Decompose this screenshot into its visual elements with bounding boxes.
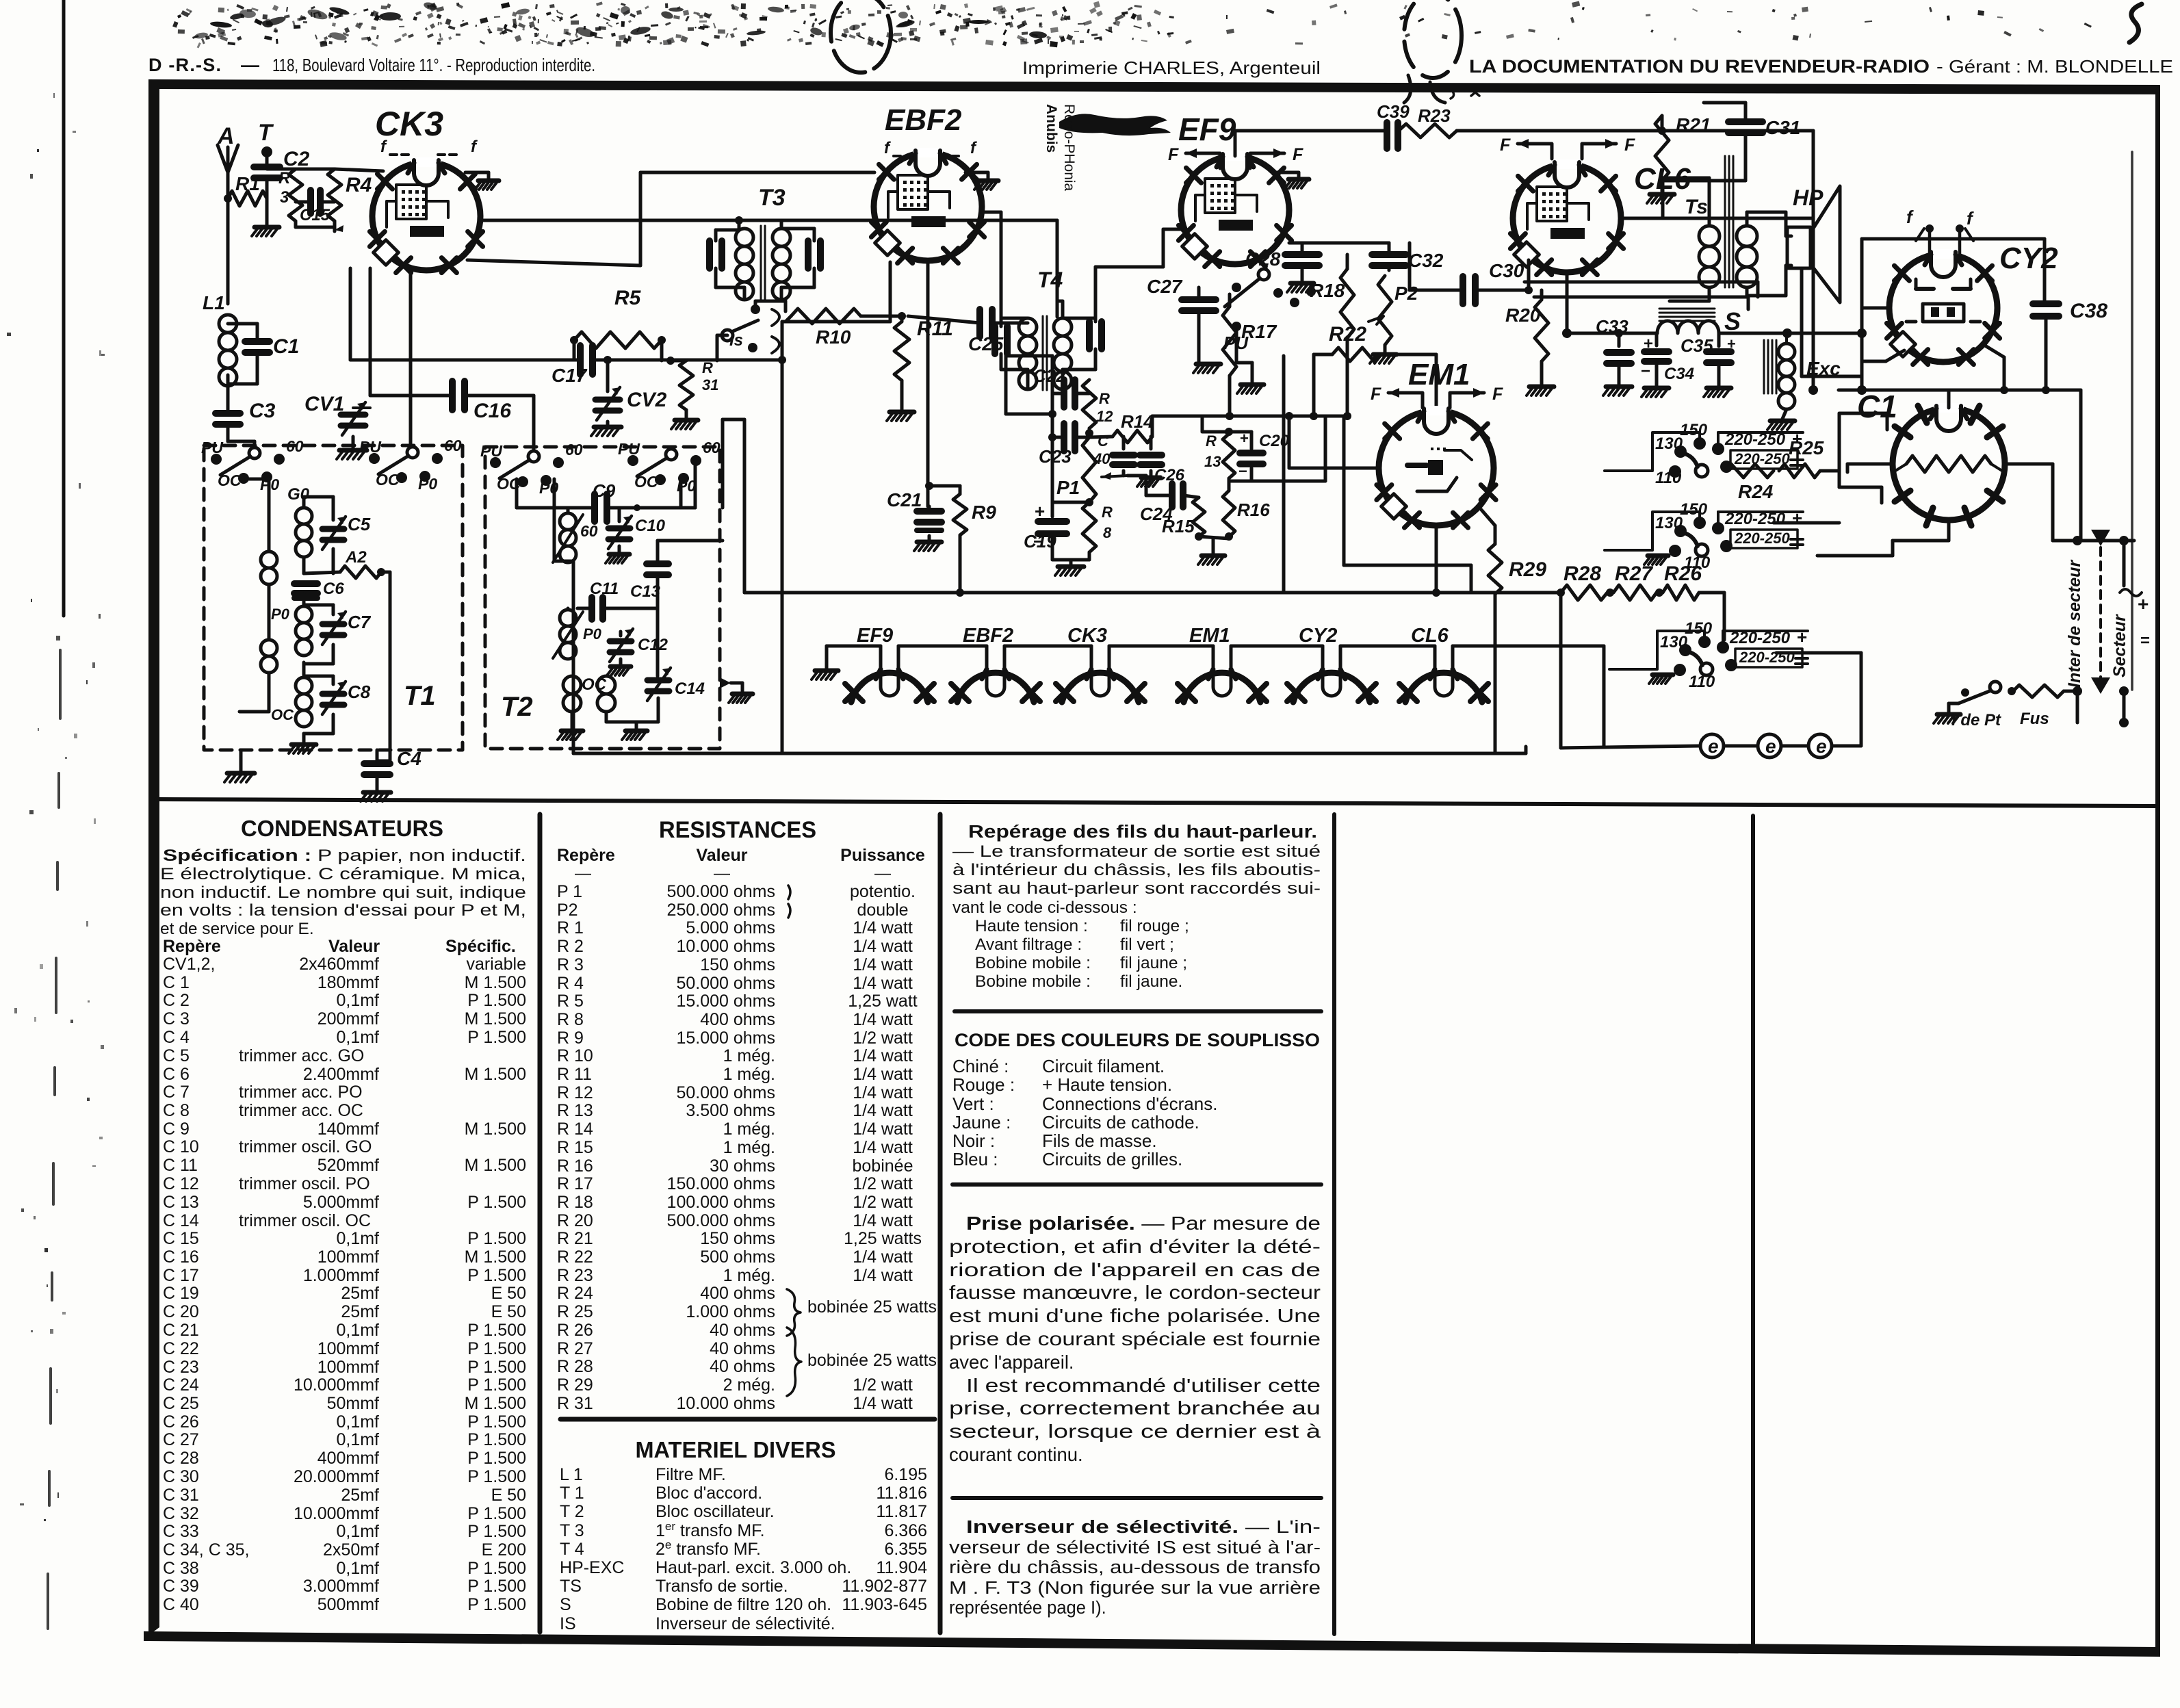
- svg-text:R17: R17: [1241, 321, 1277, 342]
- potentiometer P2: [1378, 276, 1392, 345]
- capacitor C21: [917, 511, 942, 522]
- svg-text:HP: HP: [1793, 185, 1824, 210]
- svg-text:non inductif. Le nombre qu: non inductif. Le nombre qui suit, indiqu…: [160, 883, 526, 902]
- svg-text:400mmf: 400mmf: [317, 1449, 379, 1468]
- svg-text:avec l'appareil.: avec l'appareil.: [949, 1351, 1074, 1373]
- svg-text:100mmf: 100mmf: [317, 1247, 379, 1267]
- svg-text:C1: C1: [273, 335, 299, 358]
- bus y=866: [744, 591, 1561, 595]
- svg-text:potentio.: potentio.: [850, 882, 916, 901]
- svg-text:prise de courant spéciale: prise de courant spéciale est fournie: [949, 1328, 1321, 1349]
- svg-text:150: 150: [1685, 619, 1713, 638]
- svg-text:C 26: C 26: [163, 1412, 199, 1432]
- svg-text:1/4 watt: 1/4 watt: [853, 1211, 913, 1230]
- svg-text:R 11: R 11: [557, 1065, 592, 1084]
- svg-text:C21: C21: [887, 489, 922, 510]
- svg-text:11.904: 11.904: [876, 1558, 927, 1577]
- variable capacitor CV1: [341, 415, 365, 426]
- EBF2 bottom to C21: [926, 262, 930, 506]
- svg-text:500.000 ohms: 500.000 ohms: [667, 1211, 775, 1230]
- svg-text:P 1.500: P 1.500: [467, 1449, 526, 1468]
- svg-text:R 28: R 28: [557, 1357, 593, 1376]
- svg-text:C 5: C 5: [163, 1046, 190, 1065]
- svg-text:fil rouge ;: fil rouge ;: [1120, 917, 1189, 935]
- svg-text:1/4 watt: 1/4 watt: [853, 974, 913, 993]
- svg-text:C 13: C 13: [163, 1193, 199, 1212]
- svg-text:M 1.500: M 1.500: [465, 1009, 526, 1028]
- svg-text:vant le code ci-dessous :: vant le code ci-dessous :: [952, 898, 1137, 917]
- svg-text:I de Pt: I de Pt: [1951, 711, 2001, 729]
- resistor A2 (R2): [340, 566, 381, 578]
- svg-text:P 1.500: P 1.500: [467, 1504, 526, 1523]
- capacitor C23: [1064, 424, 1075, 451]
- capacitor C31: [1728, 122, 1763, 133]
- svg-text:R20: R20: [1505, 305, 1541, 326]
- svg-text:Secteur: Secteur: [2110, 614, 2129, 677]
- svg-text:250.000 ohms: 250.000 ohms: [667, 901, 775, 920]
- svg-text:60: 60: [444, 437, 462, 454]
- coil PO + trimmer C7: [296, 606, 312, 623]
- svg-text:1 még.: 1 még.: [723, 1266, 775, 1285]
- svg-text:1/4 watt: 1/4 watt: [853, 1138, 913, 1157]
- svg-text:M 1.500: M 1.500: [465, 1065, 526, 1084]
- svg-text:+: +: [1727, 335, 1736, 352]
- tube EM1 magic eye: [1379, 411, 1494, 526]
- svg-text:C 33: C 33: [163, 1522, 199, 1541]
- svg-text:20.000mmf: 20.000mmf: [294, 1467, 379, 1486]
- svg-text:220-250: 220-250: [1734, 530, 1791, 547]
- svg-text:Avant filtrage :: Avant filtrage :: [975, 935, 1082, 954]
- switch I de Pt and fuse Fus: [1990, 682, 2001, 693]
- svg-text:Filtre MF.: Filtre MF.: [656, 1465, 726, 1484]
- capacitor C6: [294, 584, 317, 593]
- svg-text:trimmer oscil. OC: trimmer oscil. OC: [239, 1211, 371, 1230]
- svg-text:40: 40: [1093, 450, 1111, 467]
- svg-text:C 10: C 10: [163, 1137, 199, 1156]
- svg-text:TS: TS: [560, 1577, 582, 1596]
- svg-text:OC: OC: [376, 471, 400, 489]
- svg-text:3.500 ohms: 3.500 ohms: [686, 1101, 775, 1120]
- svg-text:−: −: [1238, 463, 1247, 480]
- svg-text:10.000mmf: 10.000mmf: [294, 1375, 379, 1395]
- svg-text:R22: R22: [1329, 323, 1366, 346]
- svg-text:Inverseur de sélectivité.: Inverseur de sélectivité.: [656, 1614, 835, 1633]
- svg-text:R15: R15: [1162, 516, 1195, 536]
- svg-text:60: 60: [580, 522, 598, 540]
- A2 long wire to right: [381, 571, 390, 574]
- wire to CK3 grid: [335, 169, 383, 171]
- C1 area wires to selectors: [1947, 520, 1951, 541]
- svg-text:fausse manœuvre, le cordon-: fausse manœuvre, le cordon-secteur: [949, 1282, 1321, 1303]
- svg-text:Circuits de grilles.: Circuits de grilles.: [1042, 1149, 1182, 1169]
- svg-text:P 1.500: P 1.500: [467, 1358, 526, 1377]
- svg-text:25mf: 25mf: [341, 1284, 379, 1303]
- svg-text:2.400mmf: 2.400mmf: [303, 1065, 379, 1084]
- svg-text:CL6: CL6: [1411, 625, 1449, 647]
- svg-text:S: S: [1724, 307, 1741, 335]
- svg-text:Imprimerie CHARLES, Argenteuil: Imprimerie CHARLES, Argenteuil: [1022, 57, 1321, 78]
- capacitor C27: [1182, 300, 1216, 311]
- svg-text:1/2 watt: 1/2 watt: [853, 1174, 913, 1193]
- svg-text:L1: L1: [203, 292, 225, 313]
- svg-text:e: e: [1708, 736, 1719, 757]
- resistor R13: [1223, 434, 1235, 478]
- svg-text:Bloc oscillateur.: Bloc oscillateur.: [656, 1502, 775, 1521]
- svg-text:1 még.: 1 még.: [723, 1065, 775, 1084]
- svg-text:1/4 watt: 1/4 watt: [853, 1247, 913, 1267]
- trimmer capacitor C10: [608, 528, 630, 539]
- svg-text:P0: P0: [418, 475, 437, 493]
- svg-text:T 2: T 2: [560, 1502, 584, 1521]
- svg-text:R 14: R 14: [557, 1120, 593, 1139]
- svg-text:C 21: C 21: [163, 1321, 199, 1340]
- svg-text:400 ohms: 400 ohms: [700, 1010, 775, 1029]
- svg-text:Ts: Ts: [1685, 196, 1708, 218]
- svg-text:=: =: [2140, 632, 2150, 650]
- svg-text:Inverseur de sélectivité. —: Inverseur de sélectivité. — L'in-: [966, 1518, 1321, 1537]
- svg-text:Fus: Fus: [2020, 710, 2049, 728]
- svg-text:150: 150: [1680, 500, 1708, 519]
- svg-text:1/2 watt: 1/2 watt: [853, 1375, 913, 1395]
- ground at CK3 top right: [465, 171, 489, 174]
- paper crease line: [2131, 152, 2133, 690]
- svg-text:1,25 watts: 1,25 watts: [844, 1229, 922, 1248]
- svg-text:Rouge :: Rouge :: [952, 1074, 1015, 1095]
- svg-text:e: e: [1816, 736, 1827, 757]
- svg-text:Bobine mobile :: Bobine mobile :: [975, 972, 1091, 991]
- svg-text:CV1,2,: CV1,2,: [163, 955, 215, 974]
- svg-text:bobinée: bobinée: [853, 1156, 913, 1176]
- svg-text:40 ohms: 40 ohms: [710, 1321, 775, 1340]
- top feedback line: [1234, 131, 1237, 156]
- svg-text:Circuit filament.: Circuit filament.: [1042, 1056, 1165, 1076]
- svg-text:C 30: C 30: [163, 1467, 199, 1486]
- svg-text:12: 12: [1096, 408, 1113, 425]
- svg-text:2x460mmf: 2x460mmf: [299, 955, 379, 974]
- svg-text:R 15: R 15: [557, 1138, 593, 1157]
- svg-text:R: R: [1099, 390, 1110, 407]
- svg-text:fil jaune.: fil jaune.: [1120, 972, 1182, 991]
- capacitor C1: [228, 322, 257, 326]
- svg-text:Bloc d'accord.: Bloc d'accord.: [656, 1484, 762, 1503]
- svg-text:Transfo de sortie.: Transfo de sortie.: [656, 1577, 788, 1596]
- coil GO oscillator: [560, 513, 576, 530]
- svg-text:G0: G0: [287, 485, 310, 504]
- svg-text:EF9: EF9: [857, 625, 893, 647]
- svg-text:110: 110: [1655, 469, 1682, 487]
- svg-text:Repérage des fils du haut-: Repérage des fils du haut-parleur.: [968, 823, 1317, 842]
- resistor R11: [894, 322, 909, 380]
- svg-text:C6: C6: [323, 580, 344, 598]
- bus y=613 corner into T2: [723, 418, 744, 422]
- svg-text:R 4: R 4: [557, 974, 584, 993]
- svg-text:MATERIEL DIVERS: MATERIEL DIVERS: [636, 1437, 836, 1462]
- svg-text:R 31: R 31: [557, 1394, 593, 1413]
- svg-text:E 50: E 50: [491, 1302, 526, 1321]
- svg-text:R 3: R 3: [557, 955, 584, 974]
- resistor R5: [574, 332, 662, 348]
- CK3 k to EBF2 grid long route: [467, 260, 640, 266]
- svg-text:C 28: C 28: [163, 1449, 199, 1468]
- svg-text:C 9: C 9: [163, 1120, 190, 1139]
- svg-text:—: —: [575, 864, 591, 883]
- svg-text:R 9: R 9: [557, 1028, 584, 1048]
- T2 BOX: [485, 447, 720, 749]
- svg-text:R 13: R 13: [557, 1101, 593, 1120]
- capacitor C24: [1172, 484, 1183, 507]
- svg-text:PU: PU: [618, 440, 640, 458]
- svg-text:15.000 ohms: 15.000 ohms: [676, 1028, 775, 1048]
- svg-text:Retro-PHonia: Retro-PHonia: [1061, 104, 1077, 192]
- svg-text:Connections d'écrans.: Connections d'écrans.: [1042, 1094, 1217, 1114]
- svg-text:R 12: R 12: [557, 1083, 593, 1102]
- svg-text:bobinée 25 watts: bobinée 25 watts: [807, 1351, 937, 1370]
- svg-text:R25: R25: [1789, 437, 1824, 458]
- svg-text:150: 150: [1680, 421, 1708, 439]
- svg-text:520mmf: 520mmf: [317, 1156, 379, 1175]
- filament row: [815, 669, 838, 673]
- tube EBF2: [874, 153, 982, 261]
- svg-text:R 17: R 17: [557, 1174, 593, 1193]
- svg-text:R16: R16: [1237, 500, 1270, 520]
- svg-text:1/4 watt: 1/4 watt: [853, 955, 913, 974]
- border frame: [148, 79, 2160, 94]
- tube CY2 rectifier: [1889, 254, 1997, 362]
- svg-text:—: —: [874, 864, 891, 883]
- svg-text:C 27: C 27: [163, 1430, 199, 1449]
- svg-text:C 31: C 31: [163, 1486, 199, 1505]
- svg-text:M 1.500: M 1.500: [465, 1394, 526, 1413]
- svg-text:C38: C38: [2070, 300, 2107, 322]
- column separators: [538, 814, 543, 1632]
- selectivity switch IS: [722, 330, 733, 341]
- svg-text:Jaune :: Jaune :: [952, 1112, 1011, 1133]
- svg-text:T 3: T 3: [560, 1521, 584, 1540]
- svg-text:2e transfo MF.: 2e transfo MF.: [656, 1538, 761, 1560]
- svg-text:13: 13: [1204, 453, 1221, 470]
- svg-text:F: F: [1492, 385, 1503, 404]
- ground + C4 under T1: [239, 750, 243, 771]
- svg-text:R10: R10: [816, 326, 851, 348]
- svg-text:C 6: C 6: [163, 1065, 190, 1084]
- svg-text:Chiné :: Chiné :: [952, 1056, 1009, 1076]
- C22/C23/R12/P1/R8/C19 chain: [1051, 356, 1054, 517]
- CK3 anode to EBF2 section wires: [480, 219, 1057, 222]
- svg-text:F: F: [1500, 135, 1511, 155]
- svg-text:Repère: Repère: [557, 846, 615, 865]
- x=1143 long vertical: [889, 262, 892, 322]
- svg-text:C 23: C 23: [163, 1358, 199, 1377]
- svg-text:R: R: [1102, 504, 1113, 521]
- svg-text:R 25: R 25: [557, 1302, 593, 1321]
- svg-text:trimmer oscil. GO: trimmer oscil. GO: [239, 1137, 372, 1156]
- svg-text:11.902-877: 11.902-877: [842, 1577, 927, 1596]
- svg-text:C2: C2: [283, 148, 310, 170]
- capacitor C33: [1618, 333, 1621, 346]
- svg-text:1 még.: 1 még.: [723, 1046, 775, 1065]
- capacitor C15: [311, 190, 320, 213]
- svg-text:10.000 ohms: 10.000 ohms: [676, 1394, 775, 1413]
- svg-text:25mf: 25mf: [341, 1302, 379, 1321]
- svg-text:R4: R4: [346, 174, 372, 196]
- svg-text:Haute tension :: Haute tension :: [975, 917, 1088, 935]
- svg-text:C 38: C 38: [163, 1559, 199, 1578]
- CK3 cathode down to T1 switch2: [409, 268, 413, 453]
- svg-text:R26: R26: [1664, 562, 1702, 585]
- svg-text:CK3: CK3: [1067, 625, 1107, 647]
- svg-text:C16: C16: [473, 400, 511, 422]
- svg-text:C4: C4: [397, 748, 421, 769]
- svg-text:6.195: 6.195: [884, 1465, 927, 1484]
- svg-text:M 1.500: M 1.500: [465, 1247, 526, 1267]
- svg-text:trimmer oscil. PO: trimmer oscil. PO: [239, 1174, 370, 1193]
- pencil note: [1442, 87, 1479, 99]
- svg-text:1 még.: 1 még.: [723, 1120, 775, 1139]
- svg-text:C 40: C 40: [163, 1595, 199, 1614]
- svg-text:P 1.500: P 1.500: [467, 1412, 526, 1432]
- svg-text:60: 60: [286, 437, 304, 455]
- svg-text:rière du châssis, au-dessous: rière du châssis, au-dessous de transfo: [949, 1558, 1321, 1577]
- svg-text:3.000mmf: 3.000mmf: [303, 1577, 379, 1596]
- svg-text:représentée page I).: représentée page I).: [949, 1599, 1106, 1618]
- svg-text:6.366: 6.366: [884, 1521, 927, 1540]
- svg-text:P 1.500: P 1.500: [467, 1595, 526, 1614]
- svg-text:R 26: R 26: [557, 1321, 593, 1340]
- watermark: [1059, 114, 1171, 135]
- svg-text:R 21: R 21: [557, 1229, 593, 1248]
- svg-text:sant au haut-parleur sont: sant au haut-parleur sont raccordés sui-: [952, 879, 1321, 898]
- svg-text:100.000 ohms: 100.000 ohms: [667, 1193, 775, 1212]
- svg-text:1/4 watt: 1/4 watt: [853, 937, 913, 956]
- svg-text:C3: C3: [249, 400, 276, 422]
- resistor R20: [1535, 300, 1548, 361]
- svg-text:R1: R1: [235, 173, 260, 194]
- svg-text:0,1mf: 0,1mf: [336, 1412, 379, 1432]
- svg-text:R 24: R 24: [557, 1284, 593, 1303]
- svg-text:M . F. T3 (Non figurée sur la: M . F. T3 (Non figurée sur la vue arrièr…: [949, 1579, 1321, 1598]
- svg-text:400 ohms: 400 ohms: [700, 1284, 775, 1303]
- svg-text:PU: PU: [480, 442, 503, 460]
- resistor R31: [671, 359, 686, 363]
- svg-text:C 24: C 24: [163, 1375, 199, 1395]
- tube CL6: [1513, 164, 1621, 272]
- svg-text:P 1.500: P 1.500: [467, 1375, 526, 1395]
- svg-text:Bleu :: Bleu :: [952, 1149, 998, 1169]
- resistor R16: [1223, 491, 1235, 537]
- svg-text:Spécification : P papier, n: Spécification : P papier, non inductif.: [163, 846, 526, 865]
- svg-text:130: 130: [1655, 435, 1683, 453]
- field coil Exc: [1764, 340, 1776, 393]
- svg-text:RESISTANCES: RESISTANCES: [659, 817, 816, 843]
- svg-text:25mf: 25mf: [341, 1486, 379, 1505]
- svg-text:P0: P0: [583, 625, 602, 643]
- divider line: [156, 799, 2157, 806]
- svg-text:P 1.500: P 1.500: [467, 1193, 526, 1212]
- svg-text:500.000 ohms: 500.000 ohms: [667, 882, 775, 901]
- svg-text:bobinée 25 watts: bobinée 25 watts: [807, 1297, 937, 1317]
- svg-text:1/2 watt: 1/2 watt: [853, 1028, 913, 1048]
- svg-text:C7: C7: [348, 612, 372, 632]
- svg-text:0,1mf: 0,1mf: [336, 1522, 379, 1541]
- svg-text:2x50mf: 2x50mf: [323, 1540, 379, 1560]
- svg-text:11.816: 11.816: [876, 1484, 927, 1503]
- svg-text:C 22: C 22: [163, 1339, 199, 1358]
- variable capacitor CV2: [606, 360, 610, 391]
- svg-text:8: 8: [1103, 524, 1112, 541]
- resistor R15: [1193, 497, 1205, 536]
- svg-text:C 19: C 19: [163, 1284, 199, 1303]
- svg-text:C30: C30: [1489, 260, 1524, 281]
- svg-text:C 34, C 35,: C 34, C 35,: [163, 1540, 249, 1560]
- svg-text:C33: C33: [1596, 316, 1628, 337]
- svg-text:C31: C31: [1765, 117, 1800, 138]
- capacitor C30: [1463, 276, 1475, 304]
- capacitor C17: [580, 346, 593, 374]
- svg-text:EBF2: EBF2: [963, 625, 1013, 647]
- T1 BOX: [204, 445, 463, 750]
- svg-text:C 1: C 1: [163, 973, 190, 992]
- svg-text:Circuits de cathode.: Circuits de cathode.: [1042, 1112, 1199, 1133]
- svg-text:R: R: [278, 169, 291, 187]
- svg-text:rioration de l'appareil en: rioration de l'appareil en cas de: [949, 1259, 1321, 1280]
- svg-text:A: A: [217, 123, 235, 149]
- capacitor C20 (electrolytic): [1240, 453, 1263, 464]
- svg-text:Bobine mobile :: Bobine mobile :: [975, 954, 1091, 972]
- EBF2 anode to T4: [981, 211, 1001, 214]
- svg-text:M 1.500: M 1.500: [465, 1120, 526, 1139]
- capacitor C16: [452, 381, 465, 410]
- svg-text:M 1.500: M 1.500: [465, 1156, 526, 1175]
- svg-text:fil vert ;: fil vert ;: [1120, 935, 1174, 954]
- svg-text:C1: C1: [1857, 389, 1897, 424]
- svg-text:C 2: C 2: [163, 991, 190, 1010]
- svg-text:−: −: [1641, 362, 1650, 380]
- svg-text:T 1: T 1: [560, 1484, 584, 1503]
- svg-text:C 20: C 20: [163, 1302, 199, 1321]
- svg-text:0,1mf: 0,1mf: [336, 1430, 379, 1449]
- svg-text:Valeur: Valeur: [328, 937, 380, 956]
- svg-text:P1: P1: [1056, 477, 1080, 498]
- svg-text:+: +: [1644, 335, 1653, 353]
- capacitor C3: [226, 375, 230, 411]
- trimmer capacitor C12: [610, 641, 632, 652]
- svg-text:P2: P2: [1394, 283, 1418, 304]
- svg-text:11.817: 11.817: [876, 1502, 927, 1521]
- punch holes: [831, 0, 891, 73]
- svg-text:0,1mf: 0,1mf: [336, 1229, 379, 1248]
- svg-text:OC: OC: [271, 706, 294, 723]
- svg-text:1/4 watt: 1/4 watt: [853, 918, 913, 937]
- svg-text:C 15: C 15: [163, 1229, 199, 1248]
- resistor R17: [1223, 307, 1236, 376]
- svg-text:1 még.: 1 még.: [723, 1138, 775, 1157]
- svg-text:PU: PU: [201, 439, 224, 456]
- capacitor C40: [1113, 455, 1134, 465]
- svg-text:C 11: C 11: [163, 1156, 198, 1175]
- svg-text:15.000 ohms: 15.000 ohms: [676, 992, 775, 1011]
- capacitor C28: [1285, 255, 1319, 266]
- svg-text:Repère: Repère: [163, 937, 221, 956]
- svg-text:F: F: [1624, 135, 1635, 155]
- svg-text:CV2: CV2: [627, 389, 667, 411]
- svg-text:R18: R18: [1310, 280, 1345, 301]
- svg-text:1/4 watt: 1/4 watt: [853, 1101, 913, 1120]
- svg-text:OC: OC: [218, 471, 242, 489]
- svg-text:courant continu.: courant continu.: [949, 1444, 1083, 1465]
- svg-text:P 1.500: P 1.500: [467, 1028, 526, 1047]
- pen squiggle: [2129, 4, 2142, 42]
- svg-text:est muni d'une fiche polar: est muni d'une fiche polarisée. Une: [949, 1305, 1321, 1326]
